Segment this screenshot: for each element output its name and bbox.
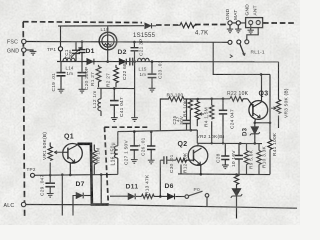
resistor R12 10K	[176, 158, 194, 162]
node: junction x270	[269, 122, 272, 125]
resistor below rail	[234, 175, 238, 189]
ground C28	[222, 165, 229, 169]
ground C19	[58, 89, 65, 93]
capacitor C27 1/50V	[130, 132, 138, 160]
node: Q3 collector junction	[260, 73, 263, 76]
wire: FSC line	[26, 41, 228, 44]
potentiometer VR2 10K(B)	[195, 99, 204, 126]
connector box GND/ANT	[246, 18, 263, 30]
ground at GND terminal	[30, 51, 37, 55]
ground at x134.6	[131, 118, 138, 122]
capacitor C22 series	[130, 58, 133, 66]
wire: ANT to contact	[247, 28, 258, 40]
diode D7	[73, 193, 91, 216]
resistor R22 10K	[230, 96, 248, 101]
terminal GND	[22, 48, 33, 52]
capacitor C29 .047	[45, 175, 55, 193]
resistor R41 100K	[268, 123, 272, 175]
resistor R3 100	[168, 97, 185, 102]
wire: sub-bus y88	[97, 87, 135, 89]
ground C29	[47, 194, 54, 198]
capacitor C23 to ground	[148, 62, 157, 88]
resistor R2 27	[114, 65, 119, 87]
wire: Q2 base line	[160, 159, 176, 161]
capacitor C41 to ground	[110, 88, 119, 117]
wire: D-row y196	[110, 195, 128, 197]
scan mottle overlay	[0, 0, 1, 1]
wire: L16 rail y131	[118, 130, 198, 143]
capacitor C20 to ground	[78, 62, 87, 90]
ground under MAT terminal	[235, 29, 241, 33]
trimmer TC1	[71, 42, 81, 62]
shield border left dashed	[23, 22, 24, 216]
transistor Q3	[249, 74, 268, 122]
shield border top dashed	[23, 21, 142, 24]
wire: thick shield trace	[78, 144, 109, 205]
wire: TP2 rail	[33, 173, 118, 176]
ground C23	[149, 88, 156, 92]
wire: R3 feed bend	[160, 99, 167, 131]
capacitor C28 to ground	[221, 143, 229, 164]
node: L18 tap on bus	[106, 60, 109, 63]
resistor R1 27	[96, 65, 101, 87]
test point TP1	[58, 47, 62, 51]
resistor R4 1.5M	[210, 99, 214, 144]
resistor 4.7K	[178, 23, 196, 28]
resistor R9 5.6K	[244, 144, 248, 175]
wire: ALC bottom rail left	[26, 204, 109, 206]
coil L18 (shielded, double circle)	[99, 26, 117, 62]
diode D2	[119, 59, 126, 65]
wire: emitter rail y174	[178, 173, 270, 176]
transistor Q2	[188, 143, 208, 174]
inductor L15	[138, 58, 150, 61]
node: junction on FSC line x82	[81, 40, 84, 43]
inductor L14	[63, 58, 75, 61]
ground C41	[111, 118, 118, 122]
node: junction y143 x254.8	[254, 142, 257, 145]
node: junction D-row x160	[159, 195, 162, 198]
node: junction x101	[100, 173, 103, 176]
resistor R10 3.3K	[257, 144, 261, 175]
node: junction C27	[133, 130, 136, 133]
node: junction VR1/C29	[49, 174, 52, 177]
wire: vertical from TP2 rail down	[61, 175, 63, 216]
relay terminal GND left	[228, 21, 232, 29]
diode D1	[87, 59, 94, 65]
diode D11	[128, 194, 141, 200]
resistor R5 10K	[188, 99, 192, 130]
wire: emitter node link	[255, 122, 270, 124]
node: junction y143 x240	[239, 142, 242, 145]
potentiometer VR3 50K(B)	[271, 62, 281, 128]
node: junction y143 x211.7	[211, 142, 213, 144]
wire: base column x160	[159, 160, 161, 196]
zener D3	[250, 123, 260, 144]
capacitor 10uF 16V	[235, 143, 243, 174]
ground under box	[248, 30, 254, 34]
wire: C21 branch to ground	[134, 62, 136, 118]
wire: relay feed step	[213, 42, 270, 74]
wire: Q3 base entry	[248, 99, 253, 106]
capacitor C26 .01	[147, 132, 155, 160]
capacitor C19 to ground	[57, 62, 66, 90]
terminal FSC	[22, 39, 26, 43]
wire: top dashed run mid	[156, 24, 178, 26]
wire: emitter column x270	[269, 74, 271, 122]
shield partition dashed top	[104, 126, 148, 128]
switch PO	[185, 191, 209, 207]
inductor L16 150u	[115, 132, 118, 175]
capacitor C21 (from FSC line)	[131, 42, 139, 62]
node: junction y143 x223	[222, 142, 224, 144]
resistor R13 47K	[142, 194, 161, 198]
wire: top dashed run right	[195, 24, 227, 26]
ground under GND terminal	[227, 29, 233, 33]
ground C27	[131, 160, 138, 164]
diode D6	[160, 194, 185, 200]
resistor R8 1M	[92, 145, 96, 175]
wire: TP1 vertical	[60, 26, 62, 62]
diode 1S1555	[145, 23, 156, 28]
wire: collector rail y143	[197, 142, 262, 144]
capacitor C24 047	[219, 99, 227, 144]
wire: top solid line	[58, 25, 144, 27]
ground C26	[148, 160, 155, 164]
wire: R12 shunt	[180, 165, 182, 174]
wire: main detector bus	[57, 61, 279, 63]
scan noise overlay	[0, 0, 1, 1]
node: junction on FSC line x134	[133, 41, 136, 44]
relay RL1-1 contacts	[228, 40, 249, 45]
node: Q2 emitter junction	[200, 173, 203, 176]
inductor L12	[98, 88, 101, 116]
capacitor C30 series	[164, 156, 167, 164]
node: junction R4 top	[210, 98, 213, 101]
node: junction bus x134.7	[133, 60, 136, 63]
ground C20	[79, 89, 86, 93]
wire: link between terminals	[232, 22, 266, 24]
test point TP2	[31, 173, 35, 177]
node: junction C24 top	[222, 97, 225, 100]
node: junction R5 on rail	[190, 129, 193, 132]
capacitor (coupling) at x82	[79, 42, 86, 62]
transistor Q1	[63, 144, 83, 175]
wire: bottom rail right	[109, 205, 297, 208]
capacitor C25	[183, 99, 191, 130]
node: junction x62.3	[61, 173, 64, 176]
node: junction C41	[113, 87, 116, 90]
node: Q3 emitter node	[254, 122, 257, 125]
wire: bias bus y99	[185, 98, 231, 100]
zener D5	[231, 189, 242, 219]
node: junction VR2 top	[197, 98, 200, 101]
terminal ALC	[21, 202, 25, 206]
node: junction bus x152	[151, 60, 154, 63]
relay arm	[230, 44, 245, 58]
node: junction rail x236.5	[235, 173, 238, 176]
wire: top dashed run far right	[263, 22, 295, 24]
wire: vertical x101	[100, 175, 102, 205]
potentiometer VR1 50K(B)	[48, 143, 63, 176]
node: junction Q1 emitter	[69, 174, 72, 177]
relay terminal MAT	[236, 21, 240, 29]
node: junction C26	[150, 130, 153, 133]
shield partition dashed vertical	[105, 127, 109, 203]
